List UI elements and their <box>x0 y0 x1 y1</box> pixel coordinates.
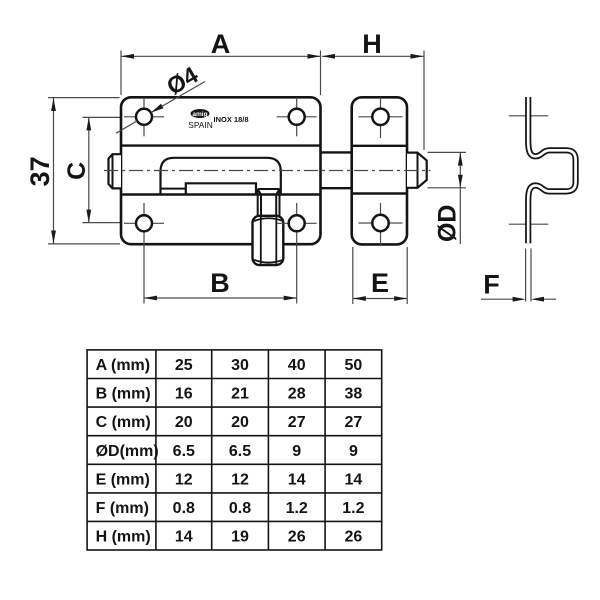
svg-text:E: E <box>371 268 389 298</box>
svg-text:B: B <box>210 268 230 298</box>
svg-text:28: 28 <box>288 386 306 403</box>
svg-text:9: 9 <box>292 443 301 460</box>
svg-text:INOX 18/8: INOX 18/8 <box>214 115 249 124</box>
svg-text:H (mm): H (mm) <box>96 529 151 546</box>
svg-text:1.2: 1.2 <box>342 500 364 517</box>
svg-text:6.5: 6.5 <box>229 443 251 460</box>
svg-text:50: 50 <box>345 357 363 374</box>
svg-text:16: 16 <box>175 386 193 403</box>
svg-text:26: 26 <box>288 529 306 546</box>
svg-text:14: 14 <box>288 471 306 488</box>
svg-text:30: 30 <box>231 357 249 374</box>
svg-text:19: 19 <box>231 529 249 546</box>
svg-text:0.8: 0.8 <box>173 500 195 517</box>
svg-text:ØD(mm): ØD(mm) <box>96 443 159 460</box>
svg-text:27: 27 <box>345 414 363 431</box>
svg-text:27: 27 <box>288 414 306 431</box>
svg-text:0.8: 0.8 <box>229 500 251 517</box>
svg-text:38: 38 <box>345 386 363 403</box>
svg-text:C (mm): C (mm) <box>96 414 151 431</box>
svg-text:SPAIN: SPAIN <box>188 120 213 130</box>
svg-text:E (mm): E (mm) <box>96 471 150 488</box>
svg-text:20: 20 <box>175 414 193 431</box>
svg-text:12: 12 <box>175 471 193 488</box>
svg-text:37: 37 <box>25 156 55 186</box>
svg-text:C: C <box>63 162 91 180</box>
svg-text:amig: amig <box>192 111 207 118</box>
svg-text:26: 26 <box>345 529 363 546</box>
svg-text:25: 25 <box>175 357 193 374</box>
svg-text:A: A <box>211 29 231 59</box>
svg-text:1.2: 1.2 <box>286 500 308 517</box>
svg-text:ØD: ØD <box>434 205 462 243</box>
svg-text:20: 20 <box>231 414 249 431</box>
svg-text:40: 40 <box>288 357 306 374</box>
svg-text:F (mm): F (mm) <box>96 500 149 517</box>
svg-text:14: 14 <box>175 529 193 546</box>
svg-text:F: F <box>483 270 500 300</box>
svg-text:A (mm): A (mm) <box>96 357 151 374</box>
svg-text:B (mm): B (mm) <box>96 386 151 403</box>
svg-text:6.5: 6.5 <box>173 443 195 460</box>
svg-text:H: H <box>362 29 382 59</box>
svg-text:9: 9 <box>349 443 358 460</box>
svg-text:12: 12 <box>231 471 249 488</box>
svg-text:21: 21 <box>231 386 249 403</box>
svg-text:14: 14 <box>345 471 363 488</box>
